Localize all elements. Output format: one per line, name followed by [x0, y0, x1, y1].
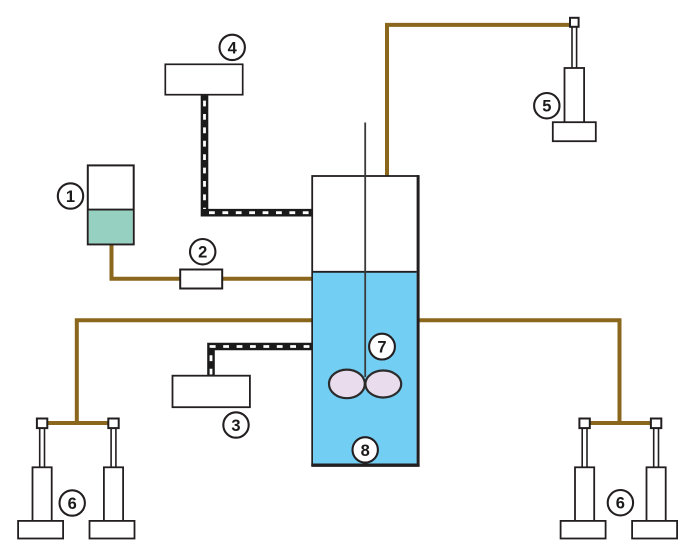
svg-text:6: 6	[68, 495, 77, 513]
svg-text:1: 1	[66, 188, 75, 206]
svg-text:5: 5	[542, 98, 551, 116]
svg-text:3: 3	[231, 417, 240, 435]
svg-text:2: 2	[198, 244, 207, 262]
svg-text:8: 8	[361, 442, 370, 460]
svg-text:7: 7	[377, 339, 386, 357]
svg-text:6: 6	[616, 495, 625, 513]
svg-text:4: 4	[228, 39, 238, 57]
